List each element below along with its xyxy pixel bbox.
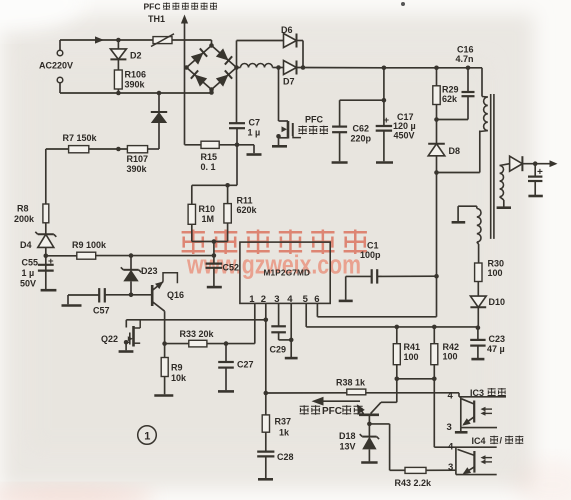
svg-text:R38 1k: R38 1k — [336, 378, 366, 388]
svg-text:IC3: IC3 — [470, 388, 484, 398]
svg-text:620k: 620k — [237, 205, 258, 215]
svg-text:C1: C1 — [367, 241, 379, 251]
svg-text:Q16: Q16 — [167, 290, 184, 300]
svg-text:R41: R41 — [404, 342, 421, 352]
svg-text:100p: 100p — [360, 250, 381, 260]
svg-text:PFC: PFC — [144, 2, 161, 12]
svg-text:0. 1: 0. 1 — [201, 162, 216, 172]
svg-text:4: 4 — [448, 442, 454, 453]
svg-text:M1P2G7MD: M1P2G7MD — [264, 268, 311, 277]
svg-text:62k: 62k — [442, 94, 458, 104]
svg-text:PFC: PFC — [305, 115, 324, 125]
svg-text:2: 2 — [261, 294, 266, 305]
svg-text:1: 1 — [249, 294, 255, 305]
svg-text:IC4: IC4 — [472, 436, 486, 446]
svg-text:390k: 390k — [125, 80, 146, 90]
svg-text:390k: 390k — [127, 164, 148, 174]
svg-text:1 µ: 1 µ — [22, 268, 35, 278]
svg-text:C29: C29 — [270, 345, 287, 355]
svg-text:1 µ: 1 µ — [248, 128, 261, 138]
svg-text:C27: C27 — [237, 360, 254, 370]
svg-text:R8: R8 — [17, 204, 29, 214]
svg-text:10k: 10k — [171, 373, 187, 383]
svg-text:C62: C62 — [353, 124, 370, 134]
svg-text:100: 100 — [404, 352, 419, 362]
svg-text:4: 4 — [448, 391, 454, 402]
svg-text:C7: C7 — [249, 118, 261, 128]
svg-text:R29: R29 — [442, 85, 459, 95]
svg-text:R107: R107 — [127, 154, 149, 164]
svg-text:D7: D7 — [283, 77, 295, 87]
svg-text:R10: R10 — [199, 204, 216, 214]
svg-text:200k: 200k — [14, 214, 35, 224]
svg-text:R11: R11 — [237, 196, 253, 206]
svg-text:R15: R15 — [201, 152, 218, 162]
svg-text:120 µ: 120 µ — [393, 121, 416, 131]
svg-text:R43 2.2k: R43 2.2k — [395, 478, 433, 488]
svg-text:D18: D18 — [339, 431, 356, 441]
svg-text:D8: D8 — [449, 146, 461, 156]
svg-text:R9 100k: R9 100k — [72, 240, 107, 250]
svg-text:3: 3 — [448, 462, 453, 473]
svg-text:C55: C55 — [22, 258, 39, 268]
svg-text:D10: D10 — [489, 297, 506, 307]
svg-text:47 µ: 47 µ — [487, 344, 505, 354]
svg-text:R42: R42 — [443, 342, 460, 352]
svg-text:TH1: TH1 — [148, 14, 165, 24]
svg-text:100: 100 — [443, 352, 458, 362]
svg-text:5: 5 — [303, 294, 309, 305]
svg-text:4: 4 — [287, 294, 293, 305]
svg-text:R106: R106 — [125, 70, 147, 80]
svg-text:3: 3 — [447, 422, 452, 433]
svg-text:1k: 1k — [279, 428, 290, 438]
svg-text:Q22: Q22 — [101, 334, 118, 344]
svg-text:D2: D2 — [130, 51, 142, 61]
svg-text:50V: 50V — [20, 279, 36, 289]
svg-text:R37: R37 — [275, 417, 292, 427]
svg-text:+: + — [384, 115, 390, 126]
svg-text:D23: D23 — [141, 266, 158, 276]
svg-text:AC220V: AC220V — [39, 61, 73, 71]
svg-text:1M: 1M — [202, 214, 215, 224]
svg-text:D4: D4 — [20, 240, 32, 250]
svg-text:C57: C57 — [93, 306, 110, 316]
svg-text:C28: C28 — [277, 452, 294, 462]
svg-text:R7 150k: R7 150k — [63, 133, 98, 143]
svg-text:R30: R30 — [488, 259, 505, 269]
svg-text:C23: C23 — [489, 334, 506, 344]
svg-text:220p: 220p — [351, 134, 372, 144]
svg-text:R33 20k: R33 20k — [180, 329, 215, 339]
svg-text:1: 1 — [144, 431, 150, 443]
svg-text:3: 3 — [274, 294, 279, 305]
svg-text:R9: R9 — [171, 363, 183, 373]
svg-text:13V: 13V — [340, 442, 356, 452]
svg-text:6: 6 — [314, 294, 319, 305]
svg-text:C52: C52 — [223, 263, 240, 273]
svg-text:450V: 450V — [394, 131, 415, 141]
svg-text:D6: D6 — [281, 25, 293, 35]
svg-text:100: 100 — [488, 268, 503, 278]
svg-text:C16: C16 — [457, 45, 474, 55]
svg-text:4.7n: 4.7n — [456, 54, 474, 64]
svg-text:PFC: PFC — [322, 406, 342, 417]
